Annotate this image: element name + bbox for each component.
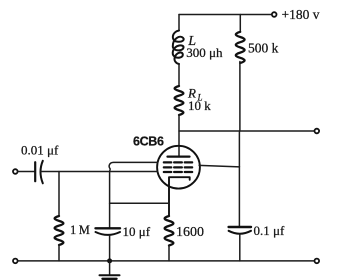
- svg-text:10 μf: 10 μf: [123, 224, 151, 239]
- svg-text:+180 v: +180 v: [282, 7, 320, 22]
- capacitor 0.1 uf top plate: [229, 226, 251, 228]
- tube plate: [168, 156, 190, 158]
- resistor RL: [175, 86, 184, 115]
- resistor 1M: [55, 216, 64, 245]
- capacitor 10 uf bottom plate: [96, 232, 121, 235]
- resistor 1600: [165, 216, 174, 246]
- svg-text:500 k: 500 k: [248, 41, 279, 56]
- capacitor 0.01 uf left plate: [34, 162, 36, 181]
- terminal bottom right: [315, 259, 320, 264]
- wire 10uf bottom: [109, 235, 111, 261]
- svg-text:0.01 μf: 0.01 μf: [21, 142, 59, 157]
- wire 500k bottom to output crossing: [238, 62, 241, 167]
- svg-text:10 k: 10 k: [188, 98, 211, 113]
- capacitor 0.1 uf bottom plate: [229, 231, 251, 234]
- wire jog to grid row1: [109, 162, 157, 171]
- wire screen to bypass node: [199, 165, 239, 167]
- svg-text:6CB6: 6CB6: [133, 134, 164, 148]
- wire bottom rail: [18, 260, 315, 262]
- resistor 500k: [236, 32, 245, 63]
- wire between L and RL: [178, 64, 180, 86]
- wire 500k branch top: [239, 15, 241, 33]
- wire grid input (cap to tube): [41, 171, 158, 173]
- wire plate branch upper (rail to inductor): [178, 15, 180, 31]
- wire top rail (+180V bus): [179, 14, 271, 16]
- wire 10uf branch top: [109, 172, 111, 229]
- wire 0.1uf bottom: [239, 234, 241, 261]
- wire plate lead (RL to tube plate): [178, 115, 180, 156]
- tube cathode: [169, 177, 190, 216]
- svg-text:0.1 μf: 0.1 μf: [254, 223, 285, 238]
- terminal bottom left: [13, 259, 18, 264]
- svg-text:1600: 1600: [176, 225, 204, 240]
- svg-text:300 μh: 300 μh: [186, 45, 223, 60]
- wire 1M bottom: [58, 245, 60, 261]
- wire output line: [179, 130, 314, 132]
- wire cathode tie: [110, 202, 169, 204]
- junction dot ground node: [107, 258, 112, 263]
- tube grid row 3: [164, 171, 192, 173]
- svg-text:1 M: 1 M: [70, 223, 90, 237]
- wire ground stub: [109, 261, 111, 275]
- tube 6CB6 envelope: [157, 146, 200, 189]
- tube grid row 2: [164, 166, 192, 168]
- capacitor 0.01 uf right plate: [41, 161, 43, 184]
- terminal +180 v: [272, 12, 277, 17]
- ground: [100, 274, 120, 276]
- wire 1M branch: [58, 172, 60, 217]
- wire input to cap: [18, 171, 35, 173]
- capacitor 10 uf top plate: [96, 227, 121, 229]
- terminal output right: [315, 129, 320, 134]
- terminal input: [13, 169, 18, 174]
- wire 0.1uf branch top: [238, 167, 240, 227]
- tube grid row 1: [164, 161, 192, 163]
- inductor L: [173, 31, 184, 65]
- wire 1600 bottom: [168, 246, 170, 261]
